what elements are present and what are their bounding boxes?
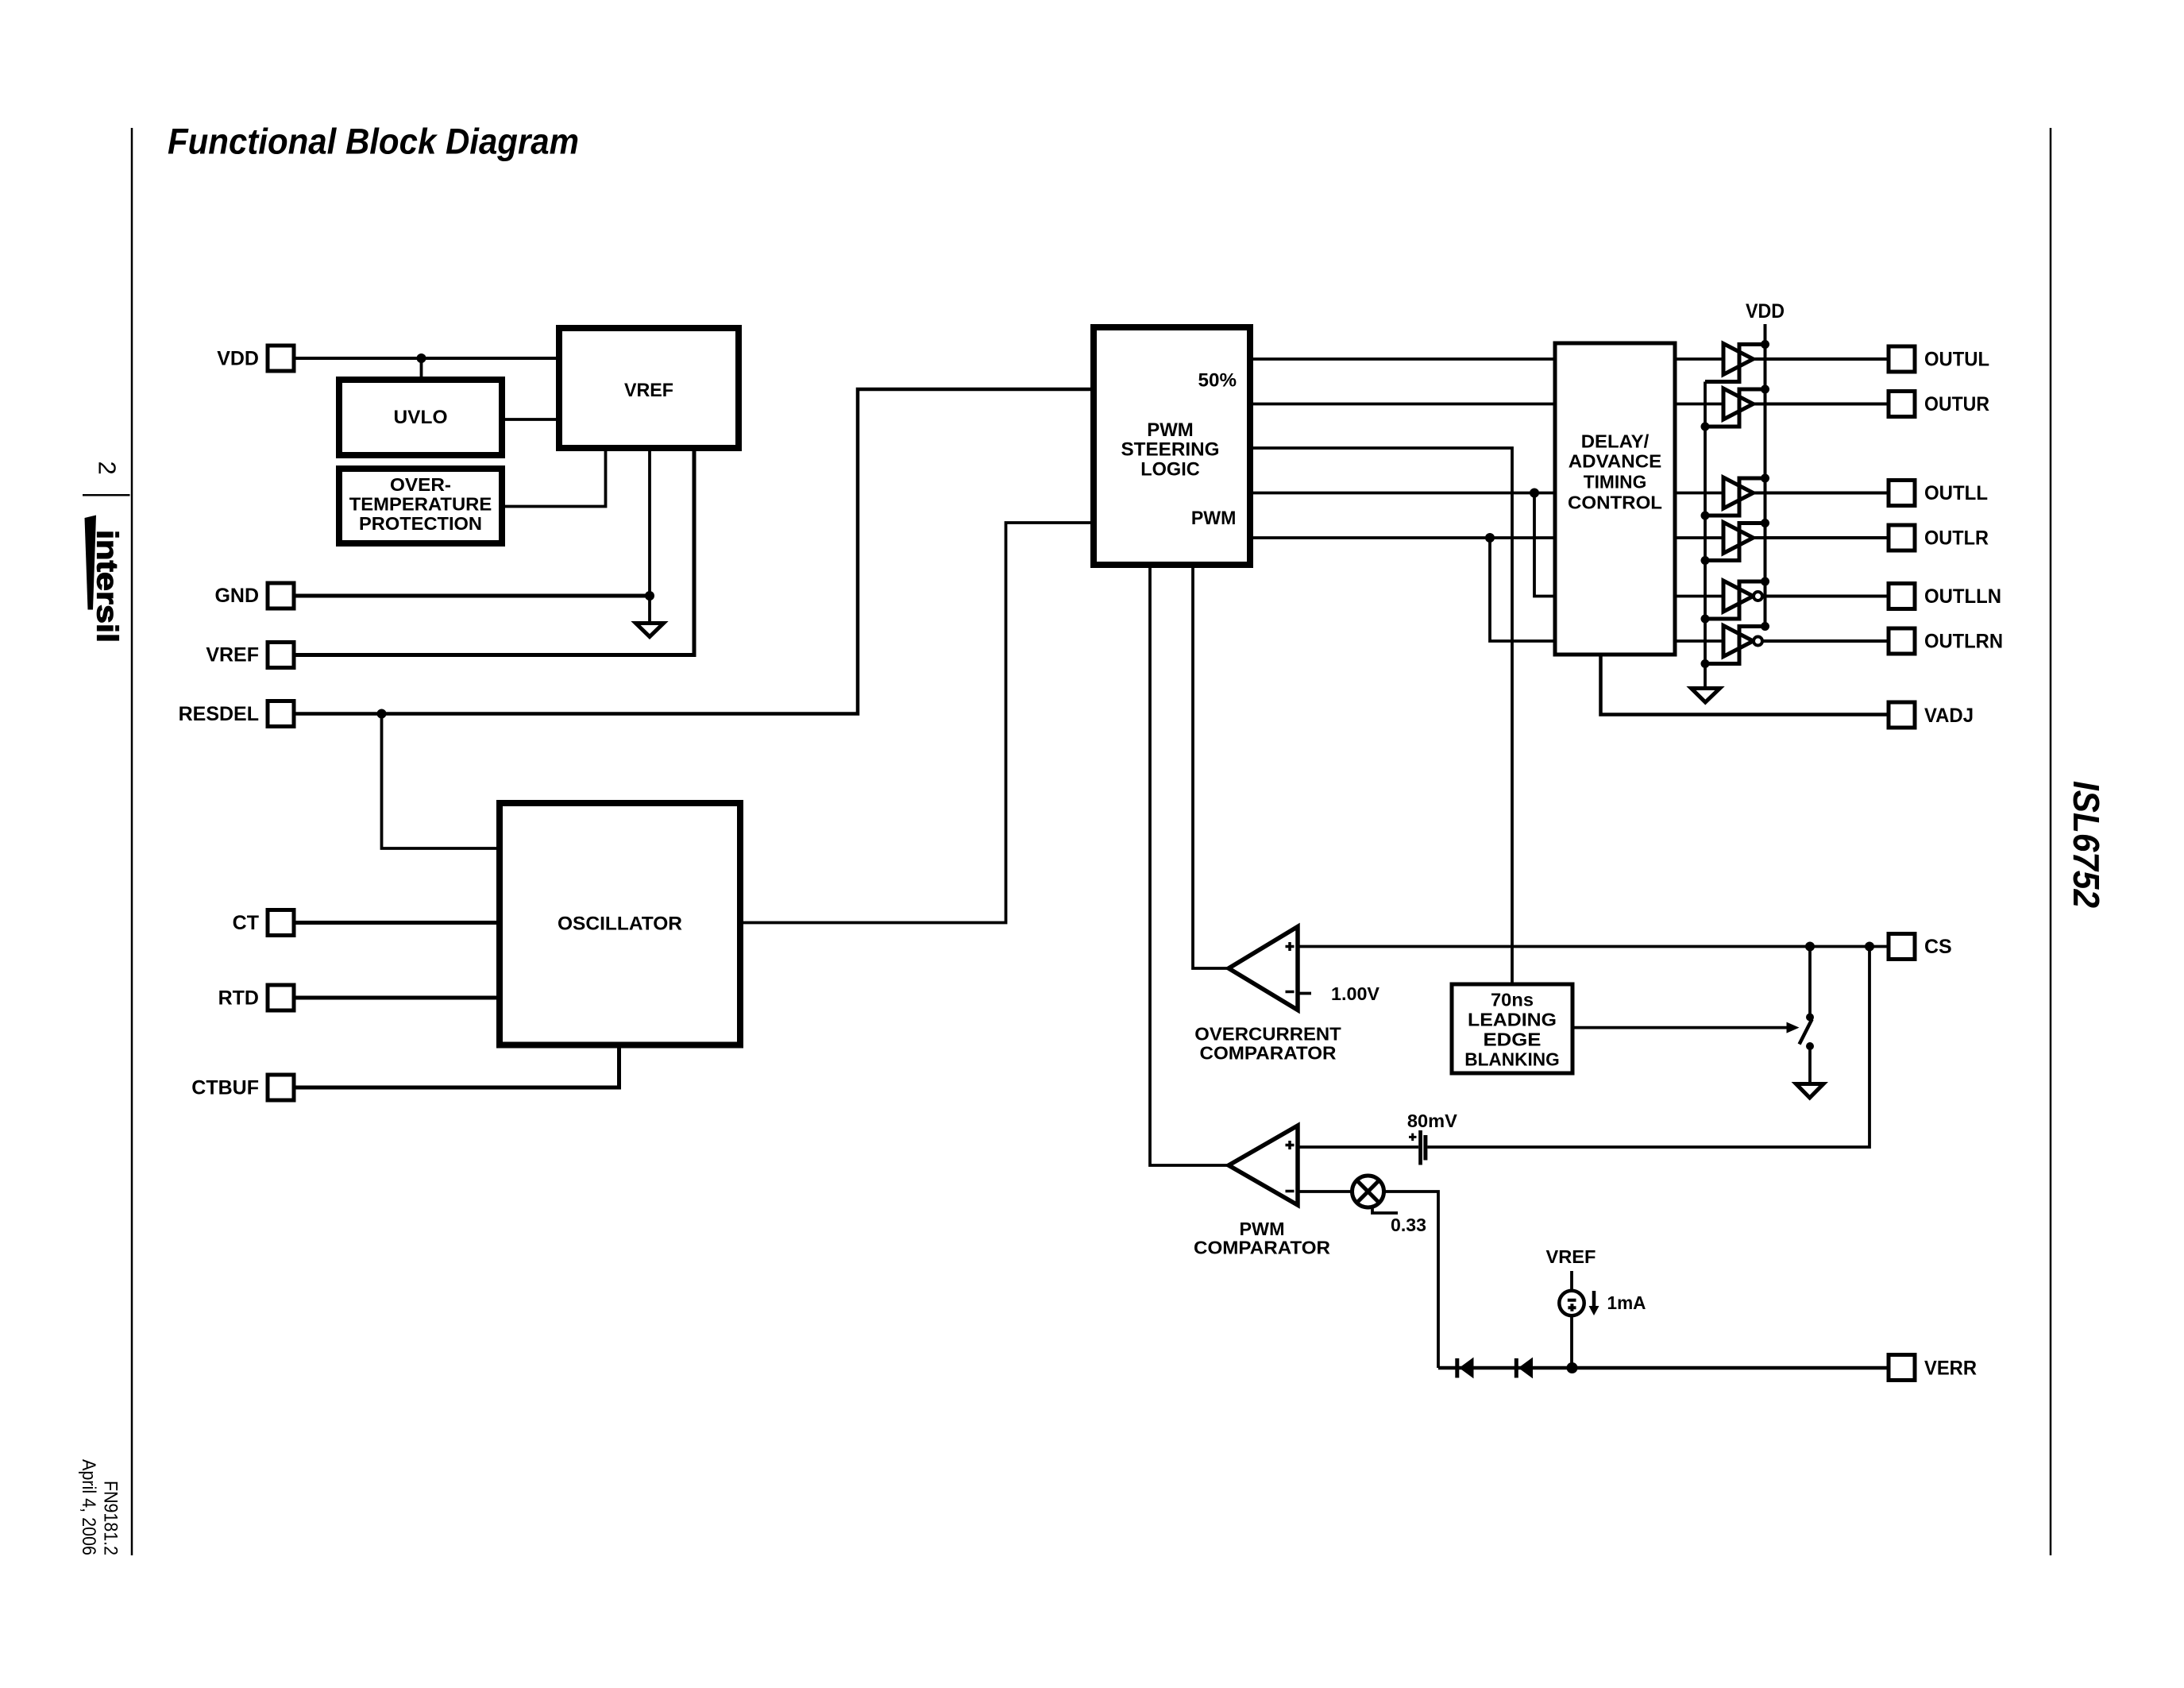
svg-text:RTD: RTD: [218, 987, 259, 1010]
svg-text:COMPARATOR: COMPARATOR: [1200, 1042, 1337, 1063]
wire delay block to buffer U3 input: [1675, 492, 1723, 495]
node buffer U2 VDD connection: [1761, 385, 1769, 394]
current source 1mA: [1559, 1291, 1584, 1315]
node buffer U6 GND connection: [1701, 659, 1710, 668]
wire RESDEL junction to oscillator: [382, 714, 500, 849]
ground symbol below switch: [1796, 1084, 1824, 1099]
wire VERR line: [1438, 1366, 1889, 1370]
wire delay block to VADJ pin: [1601, 655, 1889, 715]
wire GND to ground node: [294, 594, 650, 598]
wire VDD junction to UVLO: [420, 358, 423, 380]
svg-text:ADVANCE: ADVANCE: [1569, 451, 1662, 472]
label overcurrent comparator: [1194, 1024, 1341, 1064]
svg-text:OUTUR: OUTUR: [1924, 393, 1989, 415]
node buffer U3 VDD connection: [1761, 474, 1769, 483]
label VDD rail: [1746, 300, 1785, 323]
driver buffer U1 (OUTUL): [1705, 344, 1765, 382]
inverter buffer U5 (OUTLLN): [1705, 581, 1765, 619]
pin RESDEL: [179, 701, 294, 727]
block 70ns leading edge blanking: [1452, 984, 1572, 1073]
svg-text:Functional Block Diagram: Functional Block Diagram: [168, 122, 579, 162]
attenuator 0.33 gain block: [1352, 1176, 1399, 1213]
arrow 1mA direction: [1589, 1291, 1599, 1315]
svg-text:VREF: VREF: [206, 644, 259, 666]
svg-text:CT: CT: [233, 912, 259, 934]
pin OUTLL: [1889, 481, 1988, 506]
svg-text:PWM: PWM: [1240, 1219, 1285, 1239]
svg-text:OUTUL: OUTUL: [1924, 349, 1989, 371]
wire buffer U3 output to OUTLL pin: [1754, 492, 1889, 495]
part number ISL6752 (rotated): [2066, 781, 2107, 908]
left border rule: [131, 128, 133, 1555]
svg-text:VERR: VERR: [1924, 1358, 1977, 1380]
pin OUTLLN: [1889, 584, 2001, 609]
node CS riser junction: [1865, 942, 1874, 952]
wire UVLO to VREF block: [502, 418, 559, 421]
driver buffer U2 (OUTUR): [1705, 388, 1765, 427]
svg-text:intersil: intersil: [91, 530, 124, 643]
port label PWM: [1191, 508, 1237, 529]
svg-text:OUTLLN: OUTLLN: [1924, 585, 2001, 608]
intersil logo swoosh: [85, 516, 97, 610]
svg-text:OUTLRN: OUTLRN: [1924, 631, 2003, 653]
svg-text:PWM: PWM: [1147, 419, 1194, 441]
op-amp overcurrent comparator: [1229, 927, 1298, 1010]
node buffer U2 GND connection: [1701, 423, 1710, 431]
wire battery to CS line riser: [1427, 947, 1870, 1148]
node buffer U1 VDD connection: [1761, 340, 1769, 349]
port label 50%: [1198, 370, 1237, 392]
svg-text:TEMPERATURE: TEMPERATURE: [349, 494, 492, 515]
driver buffer U4 (OUTLR): [1705, 523, 1765, 561]
svg-text:COMPARATOR: COMPARATOR: [1194, 1238, 1330, 1258]
label VREF current source: [1546, 1246, 1596, 1267]
wire over-temperature protection to VREF block: [502, 448, 606, 507]
pin GND: [214, 583, 294, 608]
wire buffer U4 output to OUTLR pin: [1754, 536, 1889, 539]
svg-text:UVLO: UVLO: [394, 407, 448, 428]
wire attenuator to diode chain: [1384, 1192, 1439, 1368]
page title: [168, 122, 579, 162]
svg-text:GND: GND: [214, 585, 259, 607]
svg-text:CONTROL: CONTROL: [1568, 492, 1662, 513]
diode D1: [1455, 1358, 1473, 1379]
wire PWM row D to delay block: [1250, 492, 1555, 495]
wire PWM comparator plus input to CS riser: [1298, 1145, 1418, 1149]
svg-text:80mV: 80mV: [1407, 1111, 1457, 1131]
wire buffer U6 output to OUTLRN pin: [1762, 639, 1889, 643]
wire delay block to buffer U4 input: [1675, 536, 1723, 539]
node VERR junction: [1567, 1362, 1578, 1373]
svg-text:RESDEL: RESDEL: [179, 703, 259, 725]
block delay/advance timing control: [1555, 343, 1675, 655]
wire overcurrent comparator minus input stub: [1298, 992, 1311, 995]
svg-text:1.00V: 1.00V: [1331, 983, 1379, 1004]
pin CS: [1889, 934, 1952, 960]
footer separator rule: [83, 494, 130, 496]
svg-text:ISL6752: ISL6752: [2066, 781, 2107, 908]
svg-text:OVERCURRENT: OVERCURRENT: [1194, 1024, 1341, 1045]
pin CTBUF: [191, 1075, 294, 1100]
svg-text:PWM: PWM: [1191, 508, 1237, 529]
svg-text:VREF: VREF: [624, 380, 673, 401]
inverter buffer U6 (OUTLRN): [1705, 626, 1765, 664]
svg-text:OUTLL: OUTLL: [1924, 482, 1988, 504]
pin VDD: [217, 346, 294, 371]
pin CT: [233, 910, 294, 936]
wire CTBUF to oscillator bottom: [294, 1045, 619, 1087]
svg-text:FN9181.2: FN9181.2: [100, 1481, 122, 1555]
svg-text:1mA: 1mA: [1607, 1292, 1646, 1313]
node GND junction: [645, 591, 654, 601]
svg-text:OSCILLATOR: OSCILLATOR: [558, 913, 682, 934]
node buffer U6 VDD connection: [1761, 622, 1769, 631]
wire RESDEL to PWM steering logic: [294, 389, 1094, 714]
svg-text:2: 2: [94, 462, 122, 475]
node buffer U4 GND connection: [1701, 556, 1710, 565]
svg-text:LOGIC: LOGIC: [1140, 458, 1200, 480]
page number 2 (rotated): [94, 462, 122, 475]
switch blanking switch: [1800, 947, 1814, 1083]
wire current source to VERR line: [1570, 1316, 1573, 1369]
VDD rail: [1764, 324, 1767, 627]
pin OUTUR: [1889, 392, 1989, 417]
wire blanking to switch with arrow: [1572, 1022, 1800, 1033]
svg-text:BLANKING: BLANKING: [1464, 1049, 1560, 1070]
wire PWM row A to delay block: [1250, 357, 1555, 361]
node row D junction: [1530, 489, 1539, 498]
svg-text:STEERING: STEERING: [1121, 438, 1220, 460]
pin VREF: [206, 643, 294, 668]
node buffer U3 GND connection: [1701, 512, 1710, 520]
node CS switch junction: [1805, 942, 1815, 952]
block UVLO: [339, 380, 502, 455]
node RESDEL junction: [377, 709, 387, 719]
value label 80mV: [1407, 1111, 1457, 1131]
pin OUTLR: [1889, 525, 1989, 550]
pin RTD: [218, 985, 294, 1010]
svg-text:EDGE: EDGE: [1484, 1029, 1542, 1050]
block over-temperature protection: [339, 469, 502, 543]
wire PWM row B to delay block: [1250, 403, 1555, 406]
svg-text:TIMING: TIMING: [1584, 471, 1647, 492]
svg-text:CS: CS: [1924, 936, 1952, 958]
wire delay block to inverter U5 input: [1675, 595, 1723, 598]
pin VADJ: [1889, 702, 1974, 728]
ground symbol below buffer rail: [1692, 689, 1720, 703]
wire PWM row C to leading edge blanking: [1250, 448, 1512, 984]
svg-text:VADJ: VADJ: [1924, 705, 1974, 727]
wire row E branch to delay block lower input: [1490, 538, 1555, 641]
pin VERR: [1889, 1355, 1977, 1381]
pin OUTUL: [1889, 346, 1989, 372]
wire VREF pin to VREF block: [294, 448, 694, 655]
diode D2: [1515, 1358, 1533, 1379]
wire PWM bottom to PWM comparator output: [1150, 565, 1229, 1165]
op-amp PWM comparator: [1229, 1126, 1298, 1205]
value label 1mA: [1607, 1292, 1646, 1313]
wire oscillator output to PWM steering logic: [740, 523, 1094, 923]
label PWM comparator: [1194, 1219, 1330, 1258]
svg-text:April 4, 2006: April 4, 2006: [78, 1459, 99, 1555]
svg-text:PROTECTION: PROTECTION: [359, 513, 482, 534]
wire PWM row E to delay block: [1250, 536, 1555, 539]
footer date April 4, 2006 (rotated): [78, 1459, 99, 1555]
GND rail: [1704, 382, 1707, 689]
wire row D branch to delay block lower input: [1534, 493, 1555, 597]
node VDD junction: [417, 353, 426, 363]
svg-text:DELAY/: DELAY/: [1581, 431, 1650, 451]
svg-text:70ns: 70ns: [1491, 990, 1534, 1010]
wire overcurrent comparator plus input / CS line: [1298, 945, 1889, 948]
right border rule: [2050, 128, 2052, 1555]
wire buffer U1 output to OUTUL pin: [1754, 357, 1889, 361]
node buffer U5 GND connection: [1701, 615, 1710, 624]
wire VREF block to ground symbol: [648, 448, 651, 621]
wire VREF stub to current source: [1570, 1271, 1573, 1291]
intersil logo wordmark (rotated): [91, 530, 124, 643]
footer doc number FN9181.2 (rotated): [100, 1481, 122, 1555]
svg-text:VDD: VDD: [217, 348, 259, 370]
pin OUTLRN: [1889, 628, 2003, 654]
svg-text:0.33: 0.33: [1391, 1215, 1426, 1235]
svg-text:OVER-: OVER-: [390, 474, 451, 495]
node buffer U4 VDD connection: [1761, 519, 1769, 527]
wire PWM bottom to overcurrent comparator output: [1193, 565, 1229, 968]
wire buffer U2 output to OUTUR pin: [1754, 403, 1889, 406]
wire delay block to inverter U6 input: [1675, 639, 1723, 643]
ground symbol below VREF block: [636, 624, 664, 637]
svg-text:OUTLR: OUTLR: [1924, 527, 1989, 550]
wire RTD to oscillator: [294, 996, 500, 1000]
value label 0.33: [1391, 1215, 1426, 1235]
wire CT to oscillator: [294, 921, 500, 925]
wire delay block to buffer U1 input: [1675, 357, 1723, 361]
node row E junction: [1485, 533, 1495, 543]
wire delay block to buffer U2 input: [1675, 403, 1723, 406]
block VREF: [559, 328, 739, 448]
svg-text:VDD: VDD: [1746, 300, 1785, 323]
wire VDD to VREF block: [294, 357, 559, 360]
driver buffer U3 (OUTLL): [1705, 477, 1765, 516]
svg-text:LEADING: LEADING: [1468, 1010, 1557, 1030]
block PWM steering logic: [1094, 327, 1250, 565]
node buffer U5 VDD connection: [1761, 577, 1769, 586]
battery 80mV offset: [1409, 1130, 1427, 1165]
value label 1.00V: [1331, 983, 1379, 1004]
svg-text:CTBUF: CTBUF: [191, 1077, 259, 1099]
svg-text:VREF: VREF: [1546, 1246, 1596, 1267]
block OSCILLATOR: [500, 803, 740, 1045]
wire PWM comparator minus input to attenuator: [1298, 1190, 1352, 1193]
wire buffer U5 output to OUTLLN pin: [1762, 595, 1889, 598]
svg-text:50%: 50%: [1198, 370, 1237, 392]
